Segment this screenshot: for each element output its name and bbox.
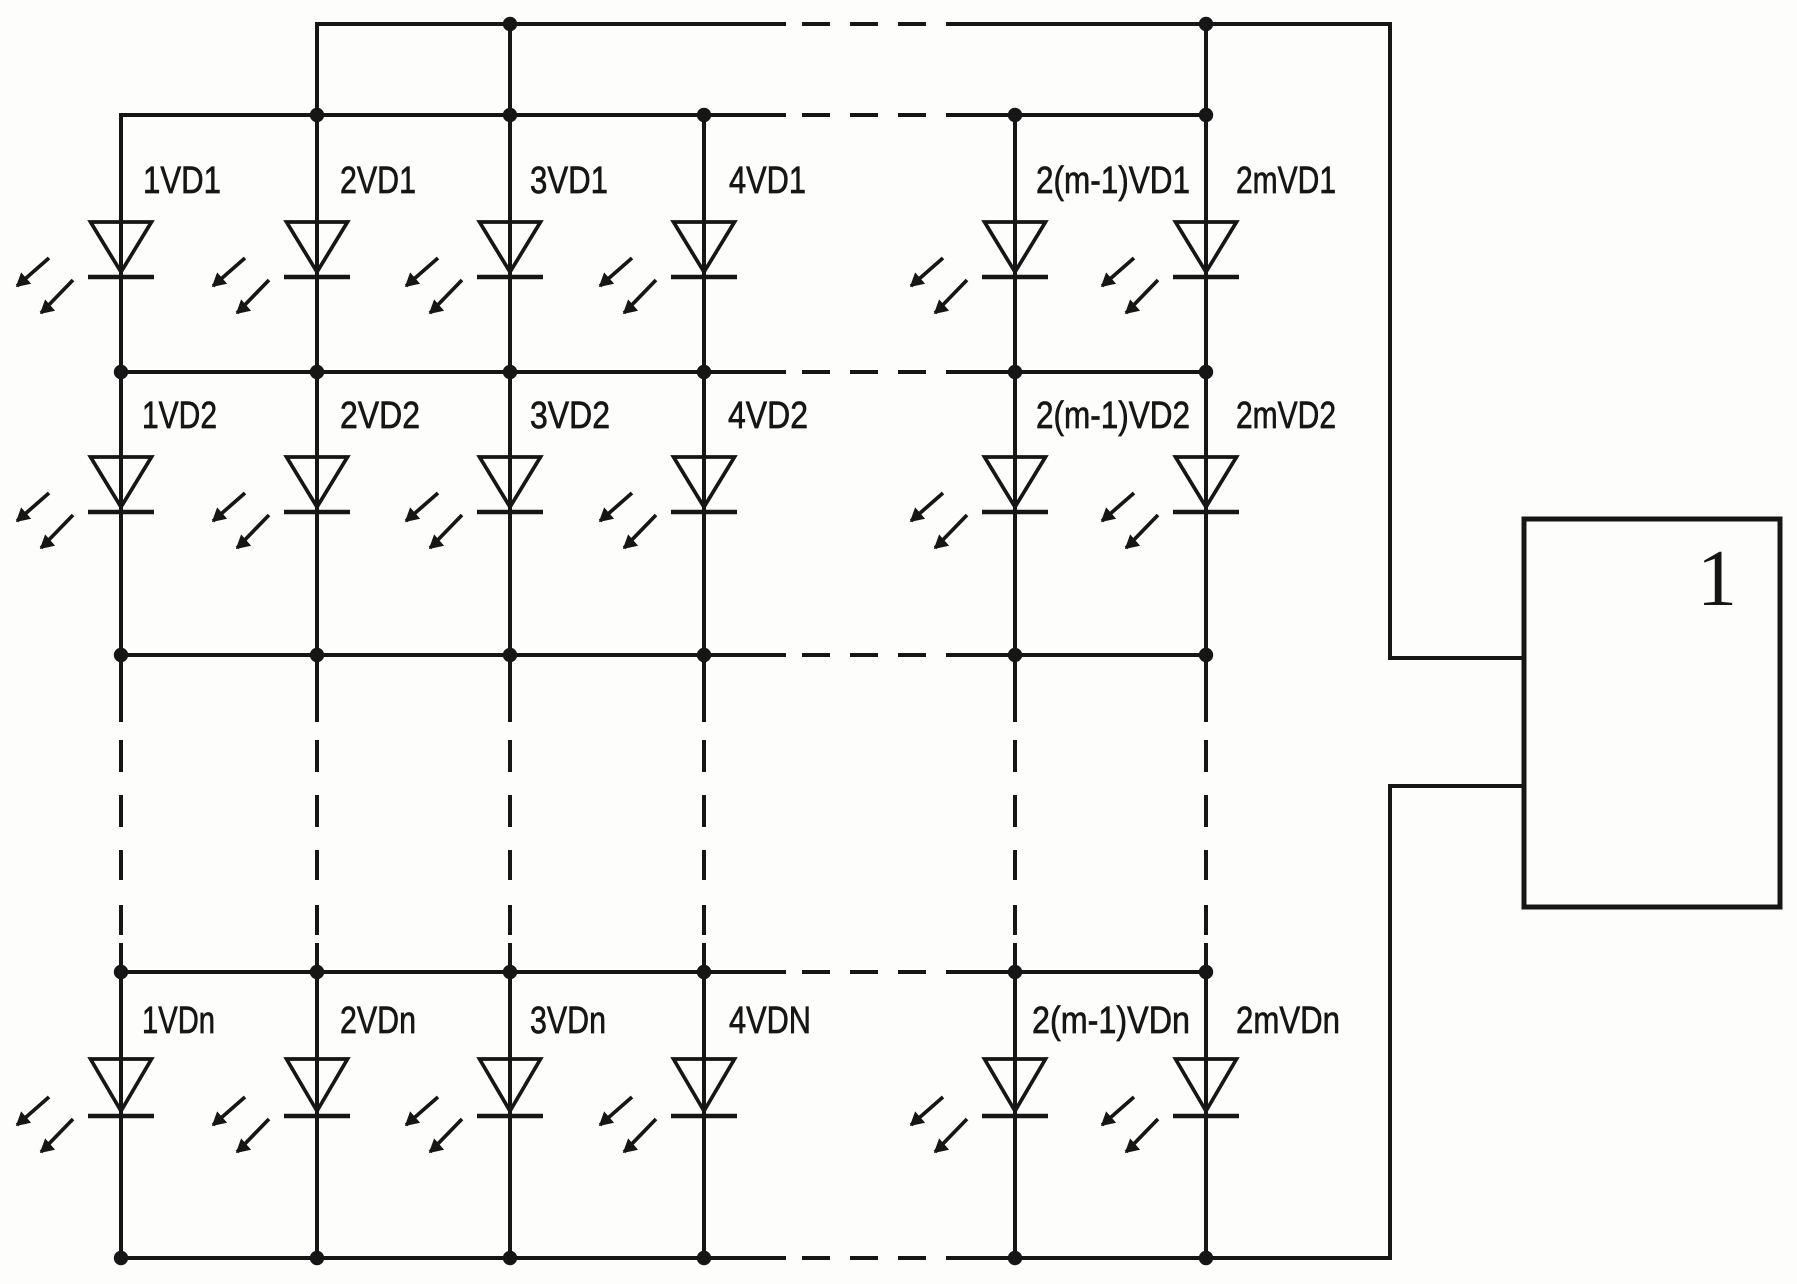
- svg-text:3VD2: 3VD2: [530, 395, 610, 437]
- svg-text:2(m-1)VD2: 2(m-1)VD2: [1036, 395, 1190, 437]
- svg-text:3VDn: 3VDn: [530, 1000, 606, 1042]
- svg-text:2mVD2: 2mVD2: [1236, 395, 1336, 437]
- svg-text:2(m-1)VD1: 2(m-1)VD1: [1036, 160, 1190, 202]
- svg-text:1: 1: [1697, 535, 1737, 623]
- svg-text:4VDN: 4VDN: [729, 1000, 811, 1042]
- svg-text:4VD2: 4VD2: [728, 395, 808, 437]
- svg-text:4VD1: 4VD1: [729, 160, 806, 202]
- svg-text:1VD2: 1VD2: [142, 395, 217, 437]
- svg-text:1VD1: 1VD1: [143, 160, 221, 202]
- svg-text:2(m-1)VDn: 2(m-1)VDn: [1032, 1000, 1190, 1042]
- svg-text:2VDn: 2VDn: [340, 1000, 416, 1042]
- svg-text:1VDn: 1VDn: [142, 1000, 215, 1042]
- svg-text:3VD1: 3VD1: [530, 160, 608, 202]
- svg-text:2mVD1: 2mVD1: [1236, 160, 1336, 202]
- svg-text:2VD1: 2VD1: [340, 160, 416, 202]
- svg-text:2VD2: 2VD2: [340, 395, 420, 437]
- svg-text:2mVDn: 2mVDn: [1236, 1000, 1340, 1042]
